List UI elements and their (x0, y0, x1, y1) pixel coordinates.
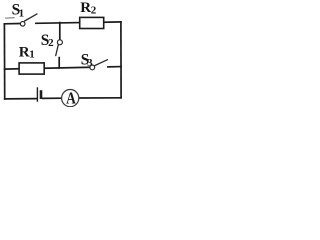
svg-text:2: 2 (48, 37, 54, 49)
svg-text:R: R (80, 0, 91, 16)
svg-text:R: R (19, 45, 30, 61)
svg-text:A: A (66, 88, 76, 107)
svg-text:3: 3 (87, 57, 93, 69)
svg-text:2: 2 (91, 5, 97, 17)
svg-text:1: 1 (19, 7, 25, 19)
svg-text:1: 1 (29, 49, 35, 61)
